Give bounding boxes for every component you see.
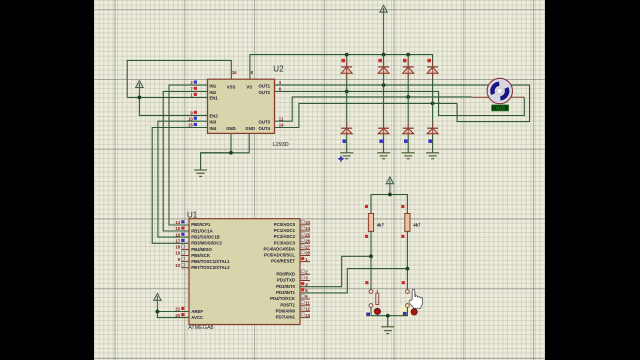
indicator D3 top red bbox=[403, 59, 407, 63]
svg-text:AVCC: AVCC bbox=[191, 315, 203, 320]
ground under D8 bbox=[426, 153, 439, 159]
svg-text:26: 26 bbox=[305, 239, 310, 244]
highlight left button bbox=[364, 311, 373, 318]
origin marker blue cross bbox=[338, 155, 345, 162]
indicator D2 top red bbox=[378, 59, 382, 63]
button SW1 red cap bbox=[374, 308, 380, 314]
svg-text:IN4: IN4 bbox=[209, 126, 216, 131]
junction OUT4/D4 bbox=[431, 102, 435, 106]
svg-text:EN2: EN2 bbox=[209, 114, 218, 119]
svg-text:PC2/ADC2: PC2/ADC2 bbox=[274, 234, 296, 239]
U1 right pin number 13 bbox=[301, 313, 311, 318]
svg-text:17: 17 bbox=[175, 239, 180, 244]
wire U1 PD2 to left button column bbox=[300, 256, 371, 286]
svg-text:1: 1 bbox=[305, 257, 308, 262]
wire IN3 to U1 PB2 bbox=[158, 121, 208, 237]
U1 inner pin labels bbox=[191, 222, 296, 320]
wire IN4 to U1 PB3 bbox=[152, 128, 207, 244]
indicator D6 blue bbox=[379, 139, 383, 143]
svg-text:23: 23 bbox=[305, 220, 310, 225]
svg-text:AREF: AREF bbox=[191, 309, 203, 314]
junction U2 GND bbox=[229, 151, 233, 155]
indicator D5 blue bbox=[343, 139, 347, 143]
indicator D4 top red bbox=[427, 59, 431, 63]
resistor R1 bbox=[368, 214, 373, 232]
svg-text:GND: GND bbox=[245, 126, 255, 131]
U1 left pin number 20 bbox=[175, 313, 184, 318]
U1 right pin number 27 bbox=[301, 245, 311, 250]
svg-text:PB5/SCK: PB5/SCK bbox=[191, 253, 211, 258]
svg-text:14: 14 bbox=[175, 220, 180, 225]
U1 right pin number 25 bbox=[301, 232, 311, 237]
junction right button column bbox=[406, 267, 410, 271]
svg-text:27: 27 bbox=[305, 245, 310, 250]
indicator D7 blue bbox=[404, 139, 408, 143]
svg-text:8: 8 bbox=[251, 70, 254, 75]
junction OUT3/D3 bbox=[406, 95, 410, 99]
junction button ground bbox=[386, 314, 390, 318]
svg-text:OUT3: OUT3 bbox=[259, 120, 271, 125]
svg-text:IN2: IN2 bbox=[209, 90, 216, 95]
svg-text:OUT2: OUT2 bbox=[259, 90, 271, 95]
indicator R2 top red bbox=[401, 205, 404, 208]
U2 pin IN1 number 2 bbox=[190, 80, 197, 85]
svg-text:10: 10 bbox=[188, 116, 193, 121]
indicator R1 bottom red bbox=[365, 235, 368, 238]
svg-text:GND: GND bbox=[226, 126, 236, 131]
svg-text:4k7: 4k7 bbox=[413, 222, 421, 227]
svg-text:PD0/RXD: PD0/RXD bbox=[276, 271, 295, 276]
power VCC arrow near U2 bbox=[136, 81, 143, 98]
svg-text:+0.0: +0.0 bbox=[495, 106, 505, 111]
svg-text:PC5/ADC5/SCL: PC5/ADC5/SCL bbox=[264, 253, 295, 258]
svg-text:PB6/TOSC1/XTAL1: PB6/TOSC1/XTAL1 bbox=[191, 259, 230, 264]
svg-text:10: 10 bbox=[175, 263, 180, 268]
svg-text:25: 25 bbox=[305, 232, 310, 237]
svg-text:PC3/ADC3: PC3/ADC3 bbox=[274, 240, 296, 245]
svg-text:U2: U2 bbox=[273, 65, 284, 74]
svg-text:U1: U1 bbox=[187, 210, 198, 219]
svg-text:PB0/ICP1: PB0/ICP1 bbox=[191, 222, 211, 227]
U1 left pin number 10 bbox=[175, 263, 184, 268]
U1 left pin number 18 bbox=[175, 245, 184, 250]
junction top rail D1 bbox=[345, 53, 349, 57]
U1 left pin number 15 bbox=[175, 226, 184, 231]
diode D6 bottom bbox=[378, 128, 389, 134]
wire IN2 to U1 PB1 bbox=[163, 91, 207, 231]
resistor R2 bbox=[405, 214, 410, 232]
svg-text:3: 3 bbox=[279, 80, 282, 85]
junction resistor rail bbox=[388, 193, 392, 197]
U1 right pin number 1 bbox=[301, 257, 308, 262]
wire IN1 to U1 PB0 bbox=[169, 85, 208, 225]
ground under buttons bbox=[381, 327, 394, 334]
diode D8 bottom bbox=[427, 128, 438, 134]
junction top rail VCC bbox=[382, 53, 386, 57]
wire buttons to ground bbox=[371, 307, 407, 315]
U1 pin stubs right side bbox=[300, 225, 310, 318]
motor readout display bbox=[492, 105, 509, 111]
ground under U2 bbox=[194, 170, 207, 176]
wire OUT4 net rail bbox=[275, 103, 458, 127]
junction OUT2/D1 bbox=[345, 90, 349, 94]
chip U1 body bbox=[189, 219, 300, 325]
button SW2 red cap bbox=[411, 309, 417, 315]
mouse cursor hand bbox=[409, 289, 422, 308]
U2 pin IN4 number 15 bbox=[188, 123, 197, 128]
U2 pin IN3 number 10 bbox=[188, 116, 197, 121]
svg-text:16: 16 bbox=[232, 70, 237, 75]
power VCC arrow AREF bbox=[154, 294, 161, 312]
wire diode column 2 bbox=[383, 55, 385, 153]
wire AVCC bbox=[157, 312, 189, 318]
junction top rail D3 bbox=[406, 53, 410, 57]
U2 pin IN2 number 7 bbox=[190, 87, 197, 92]
U1 left pin number 19 bbox=[175, 251, 184, 256]
diode D5 bottom bbox=[341, 128, 352, 134]
svg-text:ATMEGA8: ATMEGA8 bbox=[188, 325, 213, 331]
U1 pin stubs left unconnected bbox=[181, 249, 189, 267]
svg-text:PD7/AIN1: PD7/AIN1 bbox=[276, 315, 296, 320]
U1 right pin number 4 bbox=[301, 282, 308, 287]
svg-text:19: 19 bbox=[175, 251, 180, 256]
svg-text:L293D: L293D bbox=[273, 142, 289, 148]
svg-text:PD5/T1: PD5/T1 bbox=[280, 302, 295, 307]
svg-text:15: 15 bbox=[175, 226, 180, 231]
U1 right pin number 2 bbox=[301, 270, 308, 275]
wire VS pin8 up to top rail bbox=[250, 55, 433, 80]
button SW1 bbox=[369, 290, 379, 308]
svg-text:OUT4: OUT4 bbox=[259, 126, 271, 131]
junction left button column bbox=[369, 254, 373, 258]
U2 inner pin labels bbox=[209, 84, 270, 132]
ground under D5 bbox=[340, 153, 353, 159]
svg-text:15: 15 bbox=[188, 123, 193, 128]
svg-text:PD2/INT0: PD2/INT0 bbox=[276, 284, 295, 289]
power VCC arrow top bbox=[380, 5, 387, 54]
wire diode column 4 bbox=[432, 67, 434, 153]
junction EN1/VCC bbox=[138, 96, 142, 100]
junction AREF bbox=[156, 310, 160, 314]
indicator left button red bbox=[365, 281, 368, 284]
diode D3 top bbox=[403, 67, 414, 73]
wire diode column 1 bbox=[346, 55, 348, 153]
wire U2 GND pins to ground bbox=[230, 133, 232, 152]
svg-text:EN1: EN1 bbox=[209, 96, 218, 101]
svg-text:VS: VS bbox=[246, 84, 252, 89]
wire EN2 branch from VCC junction bbox=[139, 97, 207, 115]
highlight right button bbox=[400, 305, 411, 317]
diode D1 top bbox=[341, 67, 352, 73]
U1 right pin number 26 bbox=[301, 239, 311, 244]
diode D4 top bbox=[427, 67, 438, 73]
U1 left pin number 17 bbox=[175, 239, 184, 244]
U2 pin EN2 number 9 bbox=[190, 111, 197, 116]
resistor rail power arrow bbox=[386, 177, 393, 195]
U1 right pin number 28 bbox=[301, 251, 311, 256]
svg-text:24: 24 bbox=[305, 226, 310, 231]
svg-text:18: 18 bbox=[175, 245, 180, 250]
indicator D1 top red bbox=[342, 59, 346, 63]
svg-text:21: 21 bbox=[175, 307, 180, 312]
svg-text:IN1: IN1 bbox=[209, 84, 216, 89]
svg-text:PD4/T0/XCK: PD4/T0/XCK bbox=[270, 296, 296, 301]
svg-text:IN3: IN3 bbox=[209, 120, 216, 125]
U1 right pin number 3 bbox=[301, 276, 308, 281]
motor M1 pin stubs bbox=[472, 96, 525, 98]
U1 left pin number 21 bbox=[175, 307, 184, 312]
svg-text:16: 16 bbox=[175, 232, 180, 237]
wire resistor top rail bbox=[371, 195, 407, 214]
U1 right pin number 12 bbox=[301, 307, 311, 312]
svg-text:28: 28 bbox=[305, 251, 310, 256]
svg-text:11: 11 bbox=[305, 300, 310, 305]
svg-text:12: 12 bbox=[305, 307, 310, 312]
ground under D7 bbox=[402, 153, 415, 159]
svg-text:PC4/ADC4/SDA: PC4/ADC4/SDA bbox=[263, 247, 295, 252]
U1 left pin number 14 bbox=[175, 220, 184, 225]
svg-text:3: 3 bbox=[305, 276, 308, 281]
wire VSS net: U2 pin16 up-left-down to EN1 bbox=[127, 60, 231, 97]
svg-text:9: 9 bbox=[190, 111, 193, 116]
indicator D8 blue bbox=[428, 139, 432, 143]
U1 left pin number 9 bbox=[178, 257, 185, 262]
svg-text:6: 6 bbox=[305, 294, 308, 299]
svg-text:PB2/SS/OC1B: PB2/SS/OC1B bbox=[191, 235, 219, 240]
wire R2 bottom to button bbox=[406, 231, 408, 289]
svg-text:4k7: 4k7 bbox=[377, 222, 385, 227]
svg-text:OUT1: OUT1 bbox=[259, 84, 271, 89]
svg-text:PC1/ADC1: PC1/ADC1 bbox=[274, 228, 296, 233]
button SW2 bbox=[406, 290, 416, 308]
wire OUT3 net to motor left bbox=[275, 97, 472, 121]
svg-text:11: 11 bbox=[279, 116, 284, 121]
svg-text:PB7/TOSC2/XTAL2: PB7/TOSC2/XTAL2 bbox=[191, 265, 230, 270]
U2 pin EN1 number 1 bbox=[190, 93, 197, 98]
wire diode column 3 bbox=[407, 55, 409, 153]
svg-text:7: 7 bbox=[190, 87, 193, 92]
wire EN1 horizontal bbox=[127, 96, 207, 98]
svg-text:PB3/MOSI/OC2: PB3/MOSI/OC2 bbox=[191, 241, 222, 246]
svg-text:PD6/AIN0: PD6/AIN0 bbox=[276, 309, 296, 314]
svg-text:VSS: VSS bbox=[227, 84, 236, 89]
svg-text:20: 20 bbox=[175, 313, 180, 318]
ground under D6 bbox=[377, 153, 390, 159]
diode D7 bottom bbox=[403, 128, 414, 134]
svg-text:14: 14 bbox=[279, 123, 284, 128]
U1 right pin number 6 bbox=[301, 294, 308, 299]
wire R1 bottom to button bbox=[370, 231, 372, 289]
wire OUT2 net to motor right bbox=[275, 91, 525, 115]
svg-text:6: 6 bbox=[279, 87, 282, 92]
svg-text:PC6/RESET: PC6/RESET bbox=[271, 259, 295, 264]
wire AREF bbox=[157, 311, 189, 313]
U1 right pin number 23 bbox=[301, 220, 311, 225]
U1 left pin number 16 bbox=[175, 232, 184, 237]
U1 right pin number 11 bbox=[301, 300, 310, 305]
wire OUT1 net rail to motor loop bbox=[275, 85, 530, 122]
indicator R2 bottom red bbox=[401, 235, 404, 238]
indicator SW1 blue bbox=[366, 313, 370, 317]
U1 right pin number 5 bbox=[301, 288, 308, 293]
svg-text:PB1/OC1A: PB1/OC1A bbox=[191, 228, 213, 233]
svg-text:PD3/INT1: PD3/INT1 bbox=[276, 290, 295, 295]
diode D2 top bbox=[378, 67, 389, 73]
svg-text:1: 1 bbox=[190, 93, 193, 98]
svg-text:PB4/MISO: PB4/MISO bbox=[191, 247, 212, 252]
wire U1 PD3 to right button column bbox=[300, 269, 407, 293]
indicator R1 top red bbox=[365, 205, 368, 208]
chip U2 body bbox=[208, 79, 275, 133]
U1 right pin number 24 bbox=[301, 226, 311, 231]
junction OUT1/D2 bbox=[382, 83, 386, 87]
svg-text:13: 13 bbox=[305, 313, 310, 318]
svg-text:9: 9 bbox=[178, 257, 181, 262]
motor M1 bbox=[487, 78, 512, 103]
svg-text:PC0/ADC0: PC0/ADC0 bbox=[274, 222, 296, 227]
indicator SW2 blue bbox=[403, 312, 407, 316]
svg-text:PD1/TXD: PD1/TXD bbox=[277, 278, 295, 283]
indicator right button red bbox=[402, 281, 405, 284]
svg-text:2: 2 bbox=[305, 270, 308, 275]
svg-text:4: 4 bbox=[305, 282, 308, 287]
svg-text:2: 2 bbox=[190, 80, 193, 85]
